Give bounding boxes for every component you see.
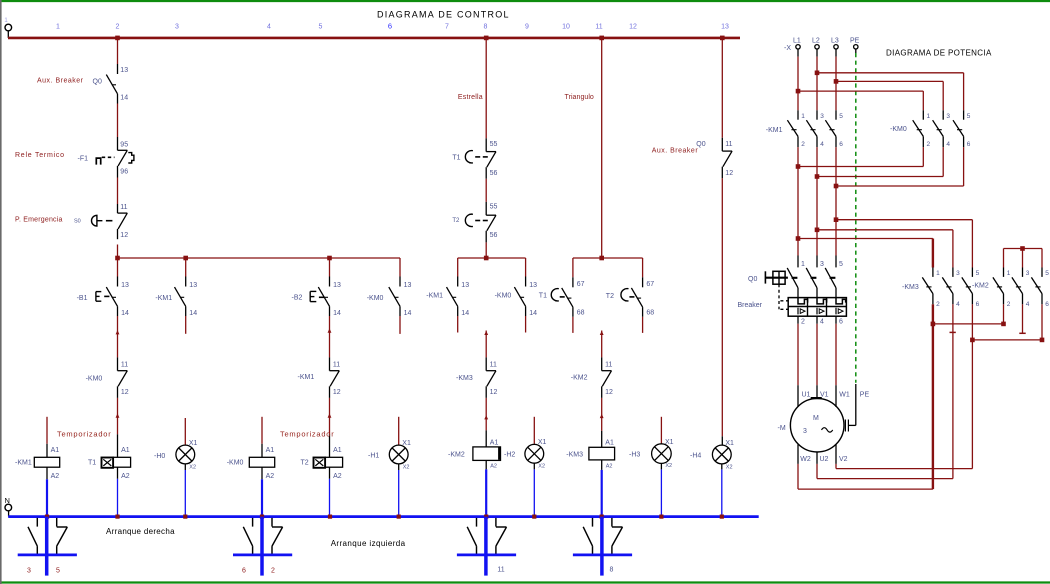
svg-text:-H1: -H1	[368, 453, 379, 460]
svg-text:-B2: -B2	[292, 294, 303, 301]
svg-text:12: 12	[629, 24, 637, 31]
svg-text:A1: A1	[490, 440, 499, 447]
svg-text:Q0: Q0	[93, 79, 102, 86]
svg-text:W1: W1	[839, 391, 850, 398]
svg-text:-H3: -H3	[629, 452, 640, 459]
svg-text:5: 5	[967, 113, 971, 120]
svg-text:6: 6	[242, 567, 246, 574]
svg-text:6: 6	[1045, 301, 1049, 308]
svg-text:2: 2	[801, 318, 805, 325]
svg-text:6: 6	[976, 301, 980, 308]
svg-text:3: 3	[803, 428, 807, 435]
svg-text:V2: V2	[839, 456, 848, 463]
svg-text:V1: V1	[820, 391, 829, 398]
svg-text:6: 6	[839, 318, 843, 325]
svg-text:-H2: -H2	[504, 452, 515, 459]
svg-text:-F1: -F1	[78, 156, 89, 163]
svg-text:11: 11	[490, 362, 497, 369]
svg-text:12: 12	[490, 389, 498, 396]
svg-text:DIAGRAMA DE CONTROL: DIAGRAMA DE CONTROL	[377, 10, 510, 20]
svg-text:11: 11	[497, 566, 504, 573]
svg-text:3: 3	[27, 567, 31, 574]
svg-text:10: 10	[562, 24, 570, 31]
svg-text:56: 56	[490, 170, 498, 177]
svg-text:13: 13	[721, 24, 729, 31]
svg-text:11: 11	[595, 24, 602, 31]
svg-text:DIAGRAMA DE POTENCIA: DIAGRAMA DE POTENCIA	[886, 48, 992, 57]
svg-text:-KM2: -KM2	[972, 282, 989, 289]
svg-text:A1: A1	[266, 447, 275, 454]
svg-text:Rele Termico: Rele Termico	[15, 152, 65, 159]
svg-text:11: 11	[120, 204, 127, 211]
svg-text:-KM2: -KM2	[571, 374, 588, 381]
svg-text:12: 12	[120, 232, 128, 239]
svg-text:-KM3: -KM3	[456, 375, 473, 382]
svg-text:-KM1: -KM1	[155, 295, 172, 302]
svg-text:3: 3	[946, 113, 950, 120]
svg-text:6: 6	[967, 141, 971, 148]
svg-text:67: 67	[577, 281, 585, 288]
svg-text:1: 1	[927, 113, 931, 120]
svg-text:Q0: Q0	[696, 141, 705, 148]
svg-text:X1: X1	[189, 440, 198, 447]
svg-text:55: 55	[490, 141, 498, 148]
svg-text:12: 12	[333, 389, 341, 396]
svg-text:5: 5	[1045, 270, 1049, 277]
svg-text:13: 13	[404, 282, 412, 289]
svg-text:4: 4	[267, 24, 271, 31]
svg-text:14: 14	[333, 310, 341, 317]
svg-text:3: 3	[956, 270, 960, 277]
svg-text:A2: A2	[121, 473, 130, 480]
svg-text:T2: T2	[301, 460, 309, 467]
svg-text:Breaker: Breaker	[738, 302, 763, 309]
svg-text:13: 13	[529, 282, 537, 289]
svg-text:4: 4	[946, 141, 950, 148]
svg-text:14: 14	[404, 310, 412, 317]
svg-text:2: 2	[271, 567, 275, 574]
svg-text:Aux. Breaker: Aux. Breaker	[37, 77, 84, 84]
svg-text:7: 7	[445, 24, 449, 31]
svg-text:Arranque izquierda: Arranque izquierda	[331, 539, 406, 548]
svg-text:13: 13	[461, 282, 469, 289]
svg-text:-KM2: -KM2	[448, 452, 465, 459]
svg-text:A1: A1	[51, 447, 60, 454]
svg-text:PE: PE	[850, 37, 860, 44]
svg-text:55: 55	[490, 203, 498, 210]
svg-text:14: 14	[121, 310, 129, 317]
svg-text:W2: W2	[800, 456, 811, 463]
svg-text:-KM0: -KM0	[367, 295, 384, 302]
svg-text:T1: T1	[88, 460, 96, 467]
svg-text:12: 12	[725, 170, 733, 177]
svg-text:S0: S0	[74, 218, 81, 224]
svg-text:1: 1	[801, 261, 805, 268]
svg-text:13: 13	[333, 282, 341, 289]
svg-text:-KM3: -KM3	[566, 452, 583, 459]
svg-text:-B1: -B1	[77, 295, 88, 302]
svg-text:A1: A1	[605, 440, 614, 447]
svg-text:A2: A2	[606, 464, 613, 470]
svg-text:X1: X1	[725, 440, 734, 447]
svg-text:-H0: -H0	[154, 453, 165, 460]
svg-text:13: 13	[189, 282, 197, 289]
svg-text:X2: X2	[403, 464, 410, 470]
svg-text:3: 3	[820, 261, 824, 268]
svg-text:Triangulo: Triangulo	[565, 94, 594, 101]
svg-text:-KM1: -KM1	[766, 127, 783, 134]
svg-text:11: 11	[121, 362, 128, 369]
svg-text:12: 12	[605, 389, 613, 396]
svg-text:T2: T2	[606, 293, 614, 300]
svg-text:T1: T1	[539, 293, 547, 300]
svg-text:1: 1	[801, 113, 805, 120]
svg-text:L2: L2	[812, 37, 820, 44]
svg-text:-KM3: -KM3	[902, 284, 919, 291]
svg-text:A2: A2	[333, 473, 342, 480]
svg-text:U1: U1	[802, 391, 811, 398]
svg-text:X2: X2	[538, 463, 545, 469]
svg-text:8: 8	[484, 24, 488, 31]
svg-text:-KM0: -KM0	[227, 460, 244, 467]
svg-text:13: 13	[121, 282, 129, 289]
svg-text:67: 67	[646, 281, 654, 288]
svg-text:L1: L1	[793, 37, 801, 44]
svg-text:Aux. Breaker: Aux. Breaker	[652, 148, 699, 155]
svg-text:-M: -M	[778, 425, 786, 432]
svg-text:56: 56	[490, 232, 498, 239]
svg-text:A2: A2	[266, 473, 275, 480]
svg-text:11: 11	[605, 362, 612, 369]
svg-text:5: 5	[839, 113, 843, 120]
svg-text:M: M	[813, 415, 819, 422]
svg-text:3: 3	[1026, 270, 1030, 277]
svg-text:1: 1	[1007, 270, 1011, 277]
svg-text:14: 14	[189, 310, 197, 317]
svg-text:3: 3	[175, 24, 179, 31]
svg-text:X2: X2	[665, 463, 672, 469]
svg-text:9: 9	[525, 24, 529, 31]
svg-text:X2: X2	[189, 464, 196, 470]
svg-text:14: 14	[529, 310, 537, 317]
svg-text:X2: X2	[726, 464, 733, 470]
svg-text:A2: A2	[51, 473, 60, 480]
svg-text:2: 2	[927, 141, 931, 148]
svg-text:Arranque derecha: Arranque derecha	[106, 527, 175, 536]
svg-text:6: 6	[388, 22, 392, 31]
svg-text:95: 95	[120, 142, 128, 149]
svg-text:-KM0: -KM0	[495, 293, 512, 300]
svg-text:Q0: Q0	[748, 276, 757, 283]
svg-text:L3: L3	[831, 37, 839, 44]
svg-text:T2: T2	[452, 218, 460, 224]
svg-text:4: 4	[1026, 301, 1030, 308]
svg-text:2: 2	[1007, 301, 1011, 308]
svg-text:2: 2	[936, 301, 940, 308]
svg-text:14: 14	[461, 310, 469, 317]
svg-text:A1: A1	[121, 447, 130, 454]
svg-text:-X: -X	[784, 45, 791, 52]
svg-text:68: 68	[646, 310, 654, 317]
svg-text:6: 6	[839, 141, 843, 148]
svg-text:-KM1: -KM1	[426, 293, 443, 300]
svg-text:A1: A1	[333, 447, 342, 454]
svg-text:68: 68	[577, 310, 585, 317]
svg-text:U2: U2	[820, 456, 829, 463]
svg-text:11: 11	[333, 362, 340, 369]
svg-text:X1: X1	[538, 439, 547, 446]
svg-text:3: 3	[820, 113, 824, 120]
svg-text:12: 12	[121, 389, 129, 396]
svg-text:5: 5	[319, 24, 323, 31]
svg-text:13: 13	[120, 67, 128, 74]
svg-text:X1: X1	[402, 440, 411, 447]
svg-text:96: 96	[120, 168, 128, 175]
svg-text:PE: PE	[860, 391, 870, 398]
svg-text:A2: A2	[490, 464, 497, 470]
svg-text:2: 2	[116, 24, 120, 31]
svg-text:1: 1	[936, 270, 940, 277]
svg-text:-KM1: -KM1	[298, 374, 315, 381]
svg-text:Temporizador: Temporizador	[280, 429, 334, 438]
svg-text:-KM1: -KM1	[15, 460, 32, 467]
svg-text:5: 5	[56, 567, 60, 574]
svg-text:X1: X1	[665, 439, 674, 446]
svg-text:Estrella: Estrella	[458, 94, 483, 101]
svg-text:8: 8	[610, 566, 614, 573]
svg-text:11: 11	[725, 141, 732, 148]
svg-text:2: 2	[801, 141, 805, 148]
svg-text:14: 14	[120, 94, 128, 101]
svg-text:4: 4	[820, 141, 824, 148]
svg-text:T1: T1	[452, 155, 460, 162]
svg-text:1: 1	[56, 24, 60, 31]
svg-text:5: 5	[976, 270, 980, 277]
svg-text:Temporizador: Temporizador	[57, 429, 111, 438]
svg-text:4: 4	[956, 301, 960, 308]
svg-text:4: 4	[820, 318, 824, 325]
svg-text:-H4: -H4	[690, 453, 701, 460]
svg-text:5: 5	[839, 261, 843, 268]
svg-text:-KM0: -KM0	[890, 126, 907, 133]
svg-text:P. Emergencia: P. Emergencia	[15, 216, 63, 223]
svg-text:-KM0: -KM0	[86, 375, 103, 382]
